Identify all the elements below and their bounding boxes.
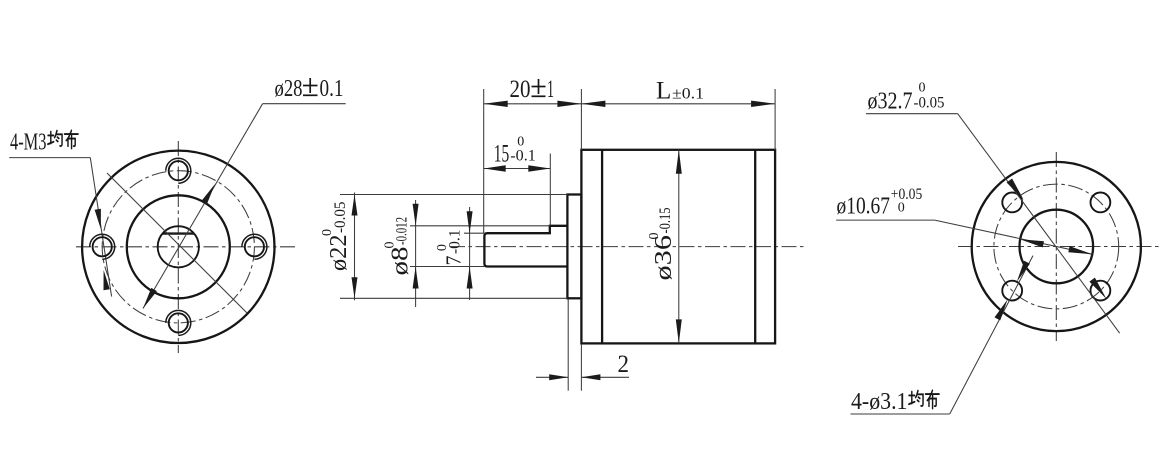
svg-text:0: 0 (647, 233, 662, 240)
svg-text:ø10.67: ø10.67 (837, 194, 891, 220)
svg-text:0: 0 (919, 81, 926, 96)
svg-text:-0.15: -0.15 (657, 207, 674, 233)
svg-text:0: 0 (320, 229, 335, 236)
svg-text:1: 1 (547, 76, 554, 103)
svg-text:ø22: ø22 (326, 235, 352, 272)
svg-text:-0.05: -0.05 (914, 95, 945, 112)
svg-text:4-ø3.1: 4-ø3.1 (851, 388, 908, 415)
svg-text:-0.05: -0.05 (332, 201, 349, 233)
svg-text:15: 15 (494, 141, 510, 168)
svg-text:0: 0 (435, 244, 450, 251)
svg-text:ø32.7: ø32.7 (868, 88, 913, 115)
svg-text:20: 20 (510, 76, 531, 103)
svg-text:-0.012: -0.012 (394, 217, 411, 245)
svg-text:0: 0 (898, 201, 905, 216)
svg-text:ø36: ø36 (651, 235, 677, 281)
svg-text:0: 0 (517, 135, 524, 150)
svg-text:0.1: 0.1 (320, 76, 344, 102)
svg-text:-0.1: -0.1 (510, 148, 536, 165)
svg-text:ø28: ø28 (275, 76, 303, 102)
svg-text:ø8: ø8 (388, 247, 414, 276)
svg-text:7: 7 (442, 256, 466, 266)
svg-text:±0.1: ±0.1 (672, 85, 704, 102)
svg-text:L: L (656, 77, 671, 104)
svg-text:+0.05: +0.05 (891, 186, 923, 203)
svg-text:2: 2 (618, 351, 630, 378)
svg-text:4-M3: 4-M3 (10, 130, 47, 156)
svg-text:0: 0 (383, 242, 398, 249)
